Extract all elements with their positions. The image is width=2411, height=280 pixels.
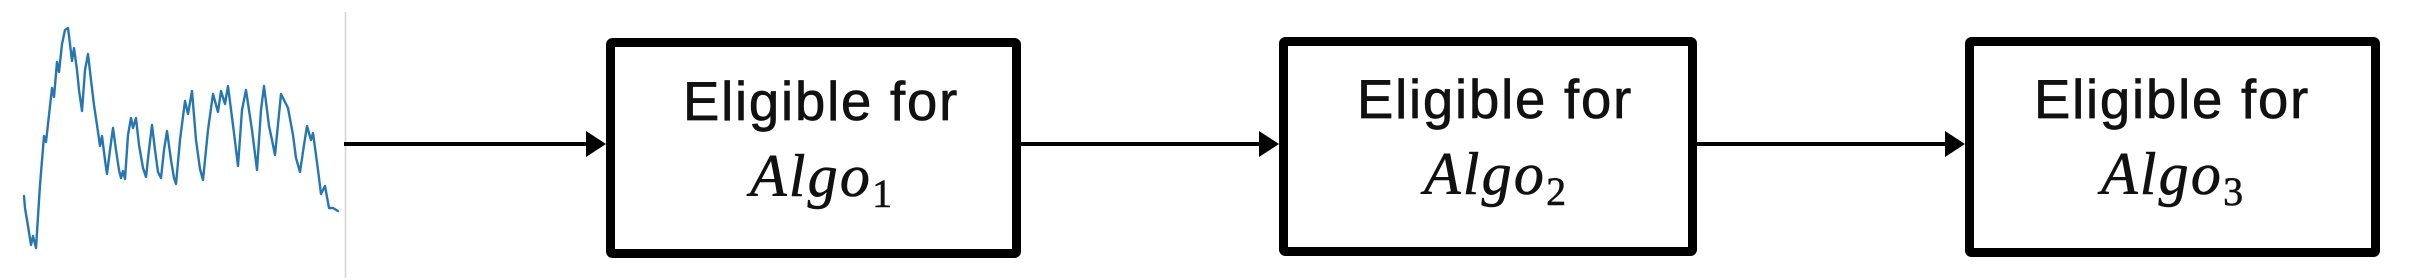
box 2 border [1284,42,1693,252]
divider line [345,12,347,278]
box 2 label line 1: Eligible for [1357,69,1633,130]
svg-text:Algo2: Algo2 [1420,141,1566,214]
svg-text:Eligible for: Eligible for [2034,69,2310,130]
box 1 label line 1: Eligible for [683,71,959,132]
svg-text:Algo3: Algo3 [2097,141,2243,214]
arrow 3 [1697,131,1965,157]
box 3 label line 2: Algo3 [2097,141,2243,214]
arrow 1 [344,131,606,157]
arrow 2 [1021,131,1279,157]
box 3 border [1970,42,2376,253]
box 1 label line 2: Algo1 [746,143,892,216]
svg-text:Eligible for: Eligible for [683,71,959,132]
time-series curve [24,28,338,248]
box 1 border [611,43,1017,254]
box 3 label line 1: Eligible for [2034,69,2310,130]
svg-text:Algo1: Algo1 [746,143,892,216]
svg-text:Eligible for: Eligible for [1357,69,1633,130]
box 2 label line 2: Algo2 [1420,141,1566,214]
